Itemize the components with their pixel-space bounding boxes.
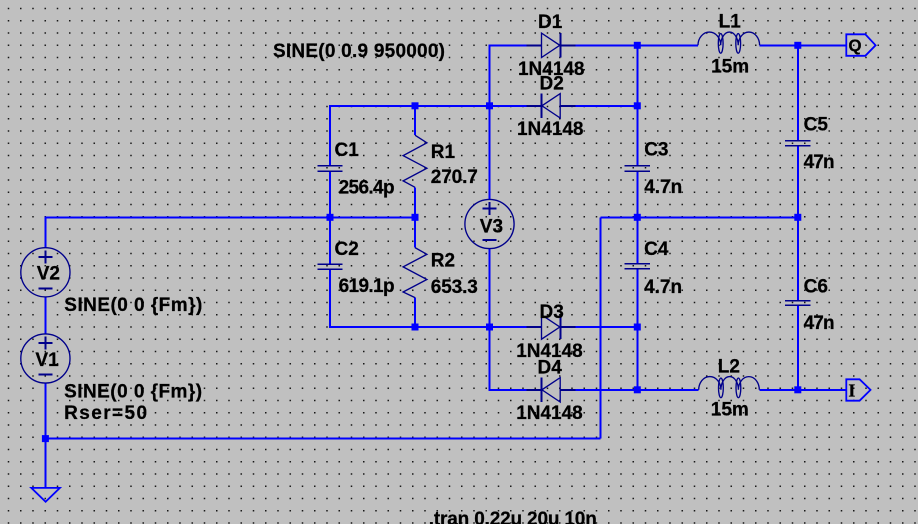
wire: V3 column top	[489, 44, 491, 200]
wire: D4 row left	[490, 389, 528, 391]
svg-text:SINE(0 0.9 950000): SINE(0 0.9 950000)	[273, 41, 445, 62]
junction (637,390)	[634, 386, 641, 393]
diode D3	[527, 315, 576, 339]
svg-text:Q: Q	[848, 36, 861, 55]
junction (415,327)	[412, 324, 419, 331]
svg-text:R1: R1	[431, 142, 456, 163]
wire: C5 column top	[797, 45, 799, 140]
diode D2	[527, 94, 576, 118]
wire: D3 row right	[575, 326, 637, 328]
capacitor C3 plates	[625, 166, 651, 172]
svg-text:653.3: 653.3	[431, 277, 478, 298]
wire: bottom row	[45, 438, 600, 440]
wire: D4 row to L2	[575, 389, 699, 391]
wire: C4 column top	[636, 217, 638, 263]
wire: C1 column top	[329, 105, 331, 165]
wire: D3 row	[330, 326, 527, 328]
junction (798,390)	[794, 386, 801, 393]
wire: C6 column top	[797, 217, 799, 300]
wire: C1 column bottom	[329, 172, 331, 217]
junction (798,45)	[794, 42, 801, 49]
svg-text:D2: D2	[540, 74, 564, 95]
wire: L1 to Q port	[760, 44, 847, 46]
junction (415,217)	[412, 214, 419, 221]
wire: D2 row right	[575, 105, 637, 107]
svg-text:D3: D3	[540, 302, 564, 323]
svg-text:R2: R2	[431, 251, 455, 272]
svg-text:C2: C2	[335, 239, 359, 260]
junction (798,217)	[794, 214, 801, 221]
junction (489,327)	[486, 324, 493, 331]
junction (330,217)	[327, 214, 334, 221]
svg-text:V3: V3	[480, 216, 503, 237]
wire: left column V2 top	[44, 216, 46, 248]
wire: V3 column bottom	[489, 248, 491, 391]
inductor L1	[698, 32, 760, 53]
diode D4	[527, 378, 576, 402]
svg-text:4.7n: 4.7n	[644, 177, 682, 198]
wire: C3 column top	[636, 45, 638, 165]
svg-text:619.1p: 619.1p	[339, 276, 395, 297]
capacitor C2 plates	[317, 264, 342, 269]
diode D1	[527, 33, 576, 57]
svg-text:SINE(0 0 {Fm}): SINE(0 0 {Fm})	[64, 382, 202, 403]
wire: R2 leads	[414, 217, 416, 247]
wire: C2 column top	[329, 217, 331, 263]
svg-text:15m: 15m	[711, 56, 749, 77]
svg-text:I: I	[848, 381, 855, 401]
wire: V2-V1	[44, 297, 46, 335]
wire: L2 to I port	[759, 389, 846, 391]
wire: return vertical x=600	[599, 217, 601, 438]
junction (489,106)	[486, 102, 493, 109]
svg-text:47n: 47n	[804, 313, 835, 334]
svg-text:Rser=50: Rser=50	[64, 403, 147, 424]
svg-text:SINE(0 0 {Fm}): SINE(0 0 {Fm})	[64, 295, 202, 316]
wire: C4 column bottom	[636, 270, 638, 390]
svg-text:D4: D4	[538, 358, 563, 379]
ground	[31, 488, 60, 502]
svg-text:1N4148: 1N4148	[516, 403, 583, 424]
svg-text:47n: 47n	[804, 152, 835, 173]
svg-text:V1: V1	[35, 350, 59, 371]
junction (637,327)	[634, 324, 641, 331]
voltage source V2	[21, 248, 70, 297]
voltage source V1	[21, 334, 70, 383]
svg-text:C4: C4	[644, 239, 669, 260]
wire: D2 row	[330, 105, 527, 107]
svg-text:15m: 15m	[711, 399, 749, 420]
svg-text:L2: L2	[718, 357, 740, 378]
svg-text:D1: D1	[538, 12, 563, 33]
svg-text:4.7n: 4.7n	[644, 277, 682, 298]
svg-text:V2: V2	[37, 264, 60, 285]
wire: D1 row right	[575, 44, 698, 46]
wire: C5 column bottom	[797, 146, 799, 217]
port Q	[846, 34, 875, 56]
wire: C3 column bottom	[636, 172, 638, 217]
wire: middle row left	[45, 216, 415, 218]
wire: C6 column bottom	[797, 306, 799, 390]
wire: C2 column bottom	[329, 270, 331, 328]
wire: V1 to bottom junction	[44, 382, 46, 488]
junction (415,106)	[412, 102, 419, 109]
capacitor C1 plates	[317, 166, 342, 172]
svg-text:270.7: 270.7	[431, 167, 478, 188]
svg-text:C3: C3	[644, 140, 668, 161]
port I	[846, 379, 870, 400]
resistor R2	[403, 248, 427, 298]
svg-text:C1: C1	[335, 140, 360, 161]
svg-text:C5: C5	[804, 115, 829, 136]
junction (637,45)	[634, 42, 641, 49]
wire: D1 row left	[490, 44, 528, 46]
svg-text:1N4148: 1N4148	[517, 119, 584, 140]
svg-text:256.4p: 256.4p	[339, 177, 395, 198]
wire: middle row right	[600, 216, 798, 218]
capacitor C6 plates	[785, 301, 811, 305]
svg-text:L1: L1	[719, 12, 742, 33]
capacitor C4 plates	[625, 264, 651, 269]
junction (637,106)	[634, 102, 641, 109]
junction (45,439)	[42, 435, 49, 442]
capacitor C5 plates	[785, 141, 811, 146]
wire: R1 leads	[414, 106, 416, 135]
svg-text:.tran 0.22u 20u 10n: .tran 0.22u 20u 10n	[429, 509, 597, 524]
svg-text:C6: C6	[804, 276, 828, 297]
junction (637,217)	[634, 214, 641, 221]
inductor L2	[699, 377, 760, 398]
resistor R1	[403, 135, 427, 187]
voltage source V3	[465, 199, 514, 248]
